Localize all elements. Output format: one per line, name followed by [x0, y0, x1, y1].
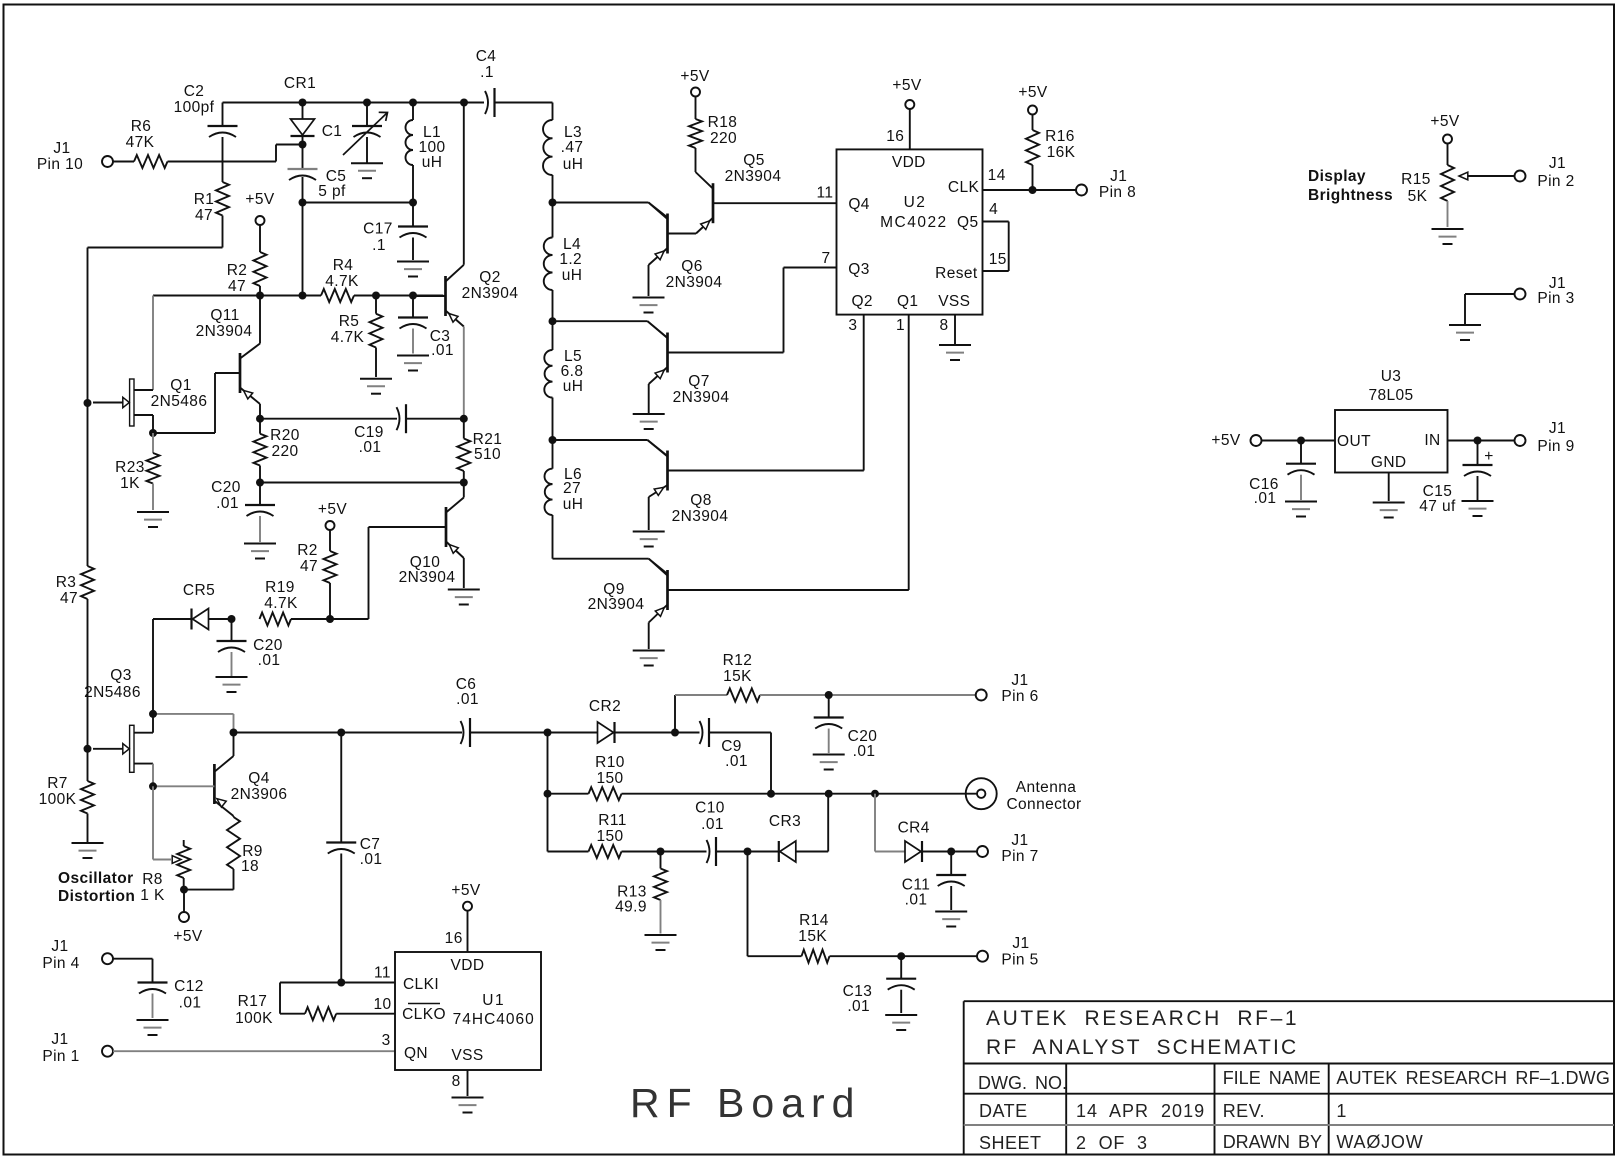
- inductor L1 100uH: [406, 103, 446, 203]
- inductor L6 27uH: [545, 440, 584, 559]
- wire U2 pin14 CLK to J1 pin8: [983, 189, 1077, 191]
- svg-text:.01: .01: [258, 652, 281, 669]
- label Display Brightness: [1308, 168, 1393, 204]
- svg-text:J1: J1: [1011, 832, 1028, 849]
- resistor R3 47: [56, 566, 94, 607]
- label Oscillator Distortion: [58, 870, 135, 905]
- ground below C20: [244, 544, 276, 559]
- wire R10 to antenna: [622, 793, 978, 795]
- capacitor C11 .01: [902, 852, 966, 911]
- svg-text:78L05: 78L05: [1368, 387, 1413, 404]
- svg-text:VDD: VDD: [892, 154, 926, 171]
- node R13 junction: [657, 848, 665, 856]
- title field DATE: [979, 1101, 1028, 1121]
- svg-text:+: +: [1484, 448, 1493, 465]
- wire R12 to J1 pin6: [760, 694, 829, 696]
- svg-text:Pin 1: Pin 1: [42, 1048, 79, 1065]
- resistor R11 150: [548, 812, 627, 858]
- power +5V terminal for R18: [680, 68, 709, 97]
- svg-text:2N3904: 2N3904: [588, 596, 645, 613]
- svg-text:2N3904: 2N3904: [399, 569, 456, 586]
- svg-text:8: 8: [939, 317, 948, 334]
- ground below C17: [397, 262, 429, 277]
- title value file name: [1336, 1068, 1610, 1088]
- svg-text:3: 3: [382, 1032, 391, 1049]
- svg-text:+5V: +5V: [1211, 432, 1240, 449]
- svg-text:R19: R19: [265, 579, 295, 596]
- wire U2 pin1 to Q9 base: [668, 315, 909, 590]
- svg-text:CR4: CR4: [898, 820, 930, 837]
- svg-text:2N3904: 2N3904: [196, 323, 253, 340]
- svg-text:Pin 3: Pin 3: [1537, 290, 1574, 307]
- title field REV.: [1223, 1101, 1265, 1121]
- svg-text:510: 510: [474, 446, 501, 463]
- transistor Q1 2N5486 JFET: [93, 377, 207, 426]
- svg-text:49.9: 49.9: [615, 899, 647, 916]
- wire C4 to L3 top: [552, 103, 554, 121]
- node R20/R21 bottom row: [256, 479, 468, 487]
- svg-text:VSS: VSS: [938, 293, 970, 310]
- wire U2 pin16 VDD: [909, 109, 911, 149]
- svg-text:2N5486: 2N5486: [151, 393, 208, 410]
- svg-text:Q4: Q4: [848, 196, 869, 213]
- wire CR2 node down to R10 row: [547, 733, 549, 794]
- wire R11 to C10: [622, 851, 707, 853]
- inductor L4 1.2uH: [544, 203, 583, 322]
- ground below C15: [1462, 501, 1494, 516]
- resistor R2 47 mid: [297, 530, 336, 619]
- wire CR3 up to antenna row: [827, 794, 829, 852]
- ground below C16: [1285, 502, 1317, 517]
- svg-text:R17: R17: [238, 993, 268, 1010]
- wire Q11 emitter down to R20 node: [259, 404, 261, 419]
- resistor R14 15K: [798, 912, 829, 963]
- node L5/L6 junction: [549, 436, 557, 444]
- node L3/L4 junction: [549, 199, 557, 207]
- node Q3 drain junction: [149, 710, 157, 718]
- svg-text:.01: .01: [853, 743, 876, 760]
- label pin 15: [989, 251, 1007, 268]
- node CLK/R16 junction: [1029, 186, 1037, 194]
- svg-text:Pin 7: Pin 7: [1001, 848, 1038, 865]
- wire +5V to U3 OUT: [1262, 440, 1336, 442]
- ground below U3 GND: [1373, 503, 1405, 518]
- node CR1 cathode junction: [299, 141, 307, 149]
- ground below Q10: [448, 590, 480, 605]
- diode CR3: [748, 813, 829, 862]
- svg-text:2N3904: 2N3904: [672, 508, 729, 525]
- wire U2 pin3 to Q8 base: [668, 315, 864, 471]
- node C10/CR3 junction: [744, 848, 752, 856]
- resistor R12 15K: [723, 652, 760, 702]
- svg-text:14: 14: [988, 167, 1006, 184]
- label pin 14: [988, 167, 1006, 184]
- diode CR1: [291, 103, 315, 145]
- svg-text:1K: 1K: [120, 475, 140, 492]
- svg-text:47: 47: [300, 558, 318, 575]
- node CLKI/C7 junction: [337, 979, 345, 987]
- inductor L3 .47uH: [543, 120, 583, 203]
- svg-text:47: 47: [195, 207, 213, 224]
- connector J1 Pin 2 terminal: [1515, 155, 1575, 190]
- capacitor C1 variable: [322, 103, 388, 163]
- svg-text:RF ANALYST SCHEMATIC: RF ANALYST SCHEMATIC: [986, 1036, 1298, 1059]
- title value sheet: [1076, 1133, 1148, 1153]
- svg-text:C17: C17: [363, 221, 393, 238]
- wire L6 bottom to Q9 collector: [553, 559, 668, 574]
- svg-text:R8: R8: [142, 871, 163, 888]
- resistor R7 100K: [39, 749, 94, 842]
- wire Q8 emitter to ground: [648, 497, 650, 530]
- wire pin6 node to J1 pin6 terminal: [829, 694, 976, 696]
- svg-text:J1: J1: [53, 140, 70, 157]
- title field DWG. NO.: [978, 1073, 1067, 1093]
- svg-text:+5V: +5V: [680, 68, 709, 85]
- svg-text:J1: J1: [1110, 168, 1127, 185]
- connector J1 Pin 5 terminal: [977, 935, 1039, 969]
- wire R3 to Q3 gate: [87, 599, 89, 749]
- node C19 row junctions: [256, 415, 468, 423]
- diode CR4: [898, 820, 977, 863]
- label pin 3 U1: [382, 1032, 391, 1049]
- svg-text:R20: R20: [270, 427, 300, 444]
- wire U1 VSS to ground: [467, 1070, 469, 1096]
- svg-text:.01: .01: [1254, 490, 1277, 507]
- wire Q6 emitter to ground: [648, 265, 650, 296]
- svg-text:CLK: CLK: [948, 179, 980, 196]
- capacitor C16 .01: [1249, 441, 1316, 508]
- svg-text:J1: J1: [51, 938, 68, 955]
- svg-text:2 OF 3: 2 OF 3: [1076, 1133, 1148, 1153]
- transistor Q3 2N5486 JFET: [84, 667, 153, 772]
- svg-text:47 uf: 47 uf: [1419, 498, 1456, 515]
- resistor R21 510: [457, 419, 502, 483]
- wire C5 node to L1 node: [303, 202, 414, 204]
- wire Q11 base down to source row: [214, 373, 216, 433]
- wire Q10 collector up to R21 node: [463, 483, 465, 498]
- ground below U1 VSS: [452, 1098, 484, 1113]
- transistor Q8 2N3904: [648, 440, 864, 525]
- wire Q4 node to C6: [234, 732, 463, 734]
- title field DRAWN BY: [1223, 1132, 1322, 1152]
- svg-text:.01: .01: [905, 892, 928, 909]
- resistor R9 18: [227, 816, 263, 890]
- wire Q1 source down to node: [153, 415, 215, 433]
- power +5V terminal for R2: [245, 191, 274, 225]
- svg-text:U3: U3: [1381, 368, 1402, 385]
- svg-text:4.7K: 4.7K: [325, 273, 359, 290]
- svg-text:R2: R2: [227, 262, 248, 279]
- svg-text:OUT: OUT: [1337, 433, 1371, 450]
- wire antenna node down to CR4: [875, 794, 905, 852]
- transistor Q4 2N3906: [153, 756, 287, 816]
- title value date: [1076, 1101, 1205, 1121]
- wire Q7 emitter to ground: [648, 384, 650, 413]
- svg-text:Brightness: Brightness: [1308, 187, 1393, 204]
- inductor L5 6.8uH: [544, 321, 583, 440]
- ground below R5: [360, 379, 392, 394]
- node Q1 source junction: [149, 429, 157, 437]
- svg-text:16: 16: [886, 128, 904, 145]
- connector J1 Pin 8 terminal: [1076, 168, 1136, 201]
- wire R10 row down to R11 row: [547, 794, 549, 852]
- node CR4/C11 junction: [947, 848, 955, 856]
- svg-text:2N3904: 2N3904: [673, 389, 730, 406]
- svg-text:CLKI: CLKI: [403, 976, 439, 993]
- svg-text:C20: C20: [211, 479, 241, 496]
- wire CR3 node down to R14 row: [748, 852, 802, 957]
- title block frame: [964, 1001, 1614, 1154]
- wire Q3 drain node to Q4 collector node: [153, 714, 234, 733]
- svg-text:15K: 15K: [798, 928, 827, 945]
- svg-text:uH: uH: [563, 378, 584, 395]
- capacitor C2 100pf: [174, 83, 238, 182]
- resistor R20 220: [254, 419, 300, 483]
- label RF Board: [630, 1080, 861, 1126]
- node +5V rail junctions: [256, 292, 417, 300]
- title text RF ANALYST SCHEMATIC: [986, 1036, 1298, 1059]
- svg-text:8: 8: [452, 1073, 461, 1090]
- svg-text:220: 220: [710, 130, 737, 147]
- IC U1 74HC4060 box: [395, 952, 541, 1070]
- resistor R4 4.7K: [321, 257, 359, 302]
- svg-text:uH: uH: [563, 156, 584, 173]
- IC U2 MC4022 box: [837, 149, 983, 314]
- capacitor C17 .1: [363, 203, 428, 261]
- svg-text:+5V: +5V: [245, 191, 274, 208]
- wire C9 right down to R10 row: [770, 733, 772, 794]
- svg-text:DWG. NO.: DWG. NO.: [978, 1073, 1067, 1093]
- node CR5/R19 junction: [228, 615, 236, 623]
- svg-text:100K: 100K: [39, 791, 77, 808]
- resistor R17 100K: [235, 993, 336, 1027]
- resistor R10 150: [548, 754, 625, 800]
- svg-text:1.2: 1.2: [559, 251, 582, 268]
- wire C10 to CR3: [716, 851, 748, 853]
- svg-text:.01: .01: [725, 753, 748, 770]
- node top rail junctions: [299, 99, 469, 107]
- wire R19 node to Q10 base: [330, 527, 426, 619]
- svg-text:Display: Display: [1308, 168, 1366, 185]
- svg-text:CR5: CR5: [183, 582, 215, 599]
- capacitor C9 .01: [675, 718, 771, 770]
- svg-text:CR2: CR2: [589, 698, 621, 715]
- label pin 4: [989, 201, 998, 218]
- svg-text:CLKO: CLKO: [402, 1006, 446, 1023]
- svg-text:R5: R5: [339, 313, 360, 330]
- svg-text:Q5: Q5: [743, 152, 764, 169]
- svg-text:J1: J1: [1011, 672, 1028, 689]
- svg-text:MC4022: MC4022: [880, 214, 948, 231]
- node R10 row junctions: [544, 790, 880, 798]
- ground below C1: [351, 163, 383, 178]
- node Q1 gate junction: [84, 399, 92, 407]
- wire U3 IN to J1 pin9: [1448, 440, 1515, 442]
- svg-text:2N3906: 2N3906: [231, 786, 288, 803]
- wire rail corner down to Q1 drain: [152, 296, 154, 391]
- power +5V terminal for U1 VDD: [451, 882, 480, 911]
- wire L3 node to Q6 collector: [553, 203, 668, 218]
- node CR2 cathode junction: [671, 729, 679, 737]
- svg-text:R7: R7: [47, 775, 68, 792]
- transistor Q9 2N3904: [588, 559, 909, 623]
- label pin 7: [821, 250, 830, 267]
- ground below J1 pin3: [1449, 325, 1481, 340]
- svg-text:47K: 47K: [126, 134, 155, 151]
- diode CR2: [548, 698, 676, 743]
- svg-text:R4: R4: [333, 257, 354, 274]
- svg-text:Pin 6: Pin 6: [1001, 688, 1038, 705]
- resistor R16 16K: [1026, 115, 1076, 191]
- svg-text:4: 4: [989, 201, 998, 218]
- connector J1 Pin 10 terminal: [37, 140, 113, 173]
- wire Q11 node to C19: [260, 418, 397, 420]
- svg-text:1 K: 1 K: [140, 887, 165, 904]
- svg-text:REV.: REV.: [1223, 1101, 1265, 1121]
- wire C19 to Q2 emitter node: [406, 418, 464, 420]
- svg-text:4.7K: 4.7K: [264, 595, 298, 612]
- resistor R19 4.7K: [260, 579, 298, 626]
- svg-text:150: 150: [596, 828, 623, 845]
- label CR1: [284, 75, 316, 92]
- node C16 junction: [1297, 437, 1305, 445]
- svg-text:R15: R15: [1401, 171, 1431, 188]
- svg-text:74HC4060: 74HC4060: [453, 1011, 535, 1028]
- label pin 10 U1: [373, 996, 391, 1013]
- transistor Q2 2N3904: [413, 265, 518, 327]
- svg-text:.01: .01: [847, 998, 870, 1015]
- svg-text:+5V: +5V: [173, 928, 202, 945]
- svg-text:Q3: Q3: [848, 261, 869, 278]
- svg-text:100K: 100K: [235, 1010, 273, 1027]
- svg-text:2N3904: 2N3904: [462, 285, 519, 302]
- wire Q2 emitter down to C19 row: [463, 327, 465, 419]
- svg-text:AUTEK RESEARCH RF–1: AUTEK RESEARCH RF–1: [986, 1007, 1299, 1030]
- svg-text:+5V: +5V: [318, 501, 347, 518]
- svg-text:2N5486: 2N5486: [84, 684, 141, 701]
- node Q3 source/Q4 base junction: [149, 782, 157, 790]
- connector J1 Pin 9 terminal: [1515, 420, 1575, 455]
- svg-text:+5V: +5V: [892, 77, 921, 94]
- connector J1 Pin 3 terminal: [1515, 275, 1575, 307]
- svg-text:100pf: 100pf: [174, 99, 215, 116]
- resistor R23 1K: [115, 433, 159, 510]
- wiper arrow R8: [153, 786, 181, 863]
- node C20 pin6 junction: [825, 691, 833, 699]
- wiper arrow R15: [1459, 172, 1515, 180]
- wire R20 to R21 bottom row: [260, 482, 464, 484]
- svg-text:C12: C12: [174, 978, 204, 995]
- connector J1 Pin 7 terminal: [977, 832, 1039, 865]
- svg-text:15K: 15K: [723, 668, 752, 685]
- wire Q3 drain up to CR5 node: [152, 714, 154, 733]
- wire Q4 collector up to C6 node: [233, 733, 235, 757]
- transistor Q6 2N3904: [649, 203, 723, 292]
- ground below C13: [885, 1015, 917, 1030]
- svg-text:Pin 4: Pin 4: [42, 955, 79, 972]
- svg-text:VDD: VDD: [451, 957, 485, 974]
- resistor R5 4.7K: [331, 296, 383, 378]
- wire top rail node row y=102.5: [223, 102, 553, 104]
- svg-text:4.7K: 4.7K: [331, 329, 365, 346]
- resistor R1 47: [194, 182, 229, 224]
- svg-text:QN: QN: [404, 1045, 428, 1062]
- node C15 junction: [1474, 437, 1482, 445]
- wire J1 pin3 to ground: [1465, 294, 1515, 324]
- capacitor C7 .01: [326, 733, 382, 983]
- ground below C20 pin6: [813, 755, 845, 770]
- power +5V terminal for R2 mid: [318, 501, 347, 530]
- svg-text:U2: U2: [904, 194, 927, 211]
- svg-text:Pin 10: Pin 10: [37, 156, 83, 173]
- svg-text:27: 27: [563, 480, 581, 497]
- svg-text:CR1: CR1: [284, 75, 316, 92]
- wire U2 pin7 to Q7 base: [668, 268, 837, 353]
- power +5V terminal below R8: [173, 912, 202, 945]
- label pin 11 U1: [374, 965, 391, 982]
- svg-text:5K: 5K: [1408, 188, 1428, 205]
- title field SHEET: [979, 1133, 1042, 1153]
- capacitor C6 .01: [456, 676, 479, 747]
- svg-text:C1: C1: [322, 123, 343, 140]
- label pin 1 U2: [896, 317, 905, 334]
- svg-text:11: 11: [817, 185, 834, 202]
- node R19/R2 junction: [326, 615, 334, 623]
- ground below Q6: [633, 298, 665, 313]
- svg-text:R3: R3: [56, 574, 77, 591]
- wire R12 left feed: [675, 694, 727, 696]
- transistor Q10 2N3904: [399, 498, 464, 587]
- svg-text:C2: C2: [184, 83, 205, 100]
- wire U3 GND pin to ground: [1388, 473, 1390, 502]
- node C13 junction: [897, 952, 905, 960]
- svg-text:+5V: +5V: [1018, 84, 1047, 101]
- svg-text:16: 16: [445, 930, 463, 947]
- node L4/L5 junction: [549, 317, 557, 325]
- ground below Q7: [633, 414, 665, 429]
- wire U2 pin8 VSS to ground: [954, 315, 956, 344]
- wire J1 pin1 to U1 QN: [113, 1050, 395, 1052]
- svg-text:.1: .1: [372, 237, 386, 254]
- svg-text:AUTEK RESEARCH RF–1.DWG: AUTEK RESEARCH RF–1.DWG: [1336, 1068, 1610, 1088]
- label pin 16 U2: [886, 128, 904, 145]
- label pin 11: [817, 185, 834, 202]
- svg-text:Q1: Q1: [897, 293, 918, 310]
- svg-text:U1: U1: [482, 992, 505, 1009]
- svg-text:R23: R23: [115, 459, 145, 476]
- ground below Q8: [633, 532, 665, 547]
- svg-text:R16: R16: [1045, 128, 1075, 145]
- wire C6 to CR2 node: [470, 732, 548, 734]
- ground below Q9: [633, 651, 665, 666]
- svg-text:R6: R6: [131, 118, 152, 135]
- svg-text:18: 18: [241, 858, 259, 875]
- ground below R13: [645, 935, 677, 950]
- svg-text:Q3: Q3: [110, 667, 131, 684]
- svg-text:5 pf: 5 pf: [318, 183, 346, 200]
- svg-text:.01: .01: [179, 995, 202, 1012]
- svg-text:2N3904: 2N3904: [725, 168, 782, 185]
- IC U3 78L05 box: [1335, 368, 1448, 473]
- svg-text:2N3904: 2N3904: [666, 274, 723, 291]
- svg-text:SHEET: SHEET: [979, 1133, 1042, 1153]
- wire C7 down to U1 CLKI row: [280, 983, 395, 1014]
- svg-text:Pin 2: Pin 2: [1537, 173, 1574, 190]
- svg-text:1: 1: [1336, 1101, 1346, 1121]
- diode CR5: [153, 582, 232, 630]
- svg-text:Q7: Q7: [688, 373, 709, 390]
- node C7 junction: [337, 729, 345, 737]
